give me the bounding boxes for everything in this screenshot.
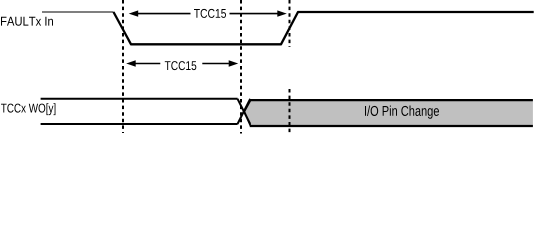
node: dashed timing reference line 3 lower (bus, x=289.5) [289, 89, 291, 133]
value label TCC15 (bottom) [165, 61, 197, 70]
dimension arrow TCC15 (bottom, fall to crossover) [126, 60, 238, 66]
region label I/O Pin Change [365, 106, 439, 119]
dimension arrow TCC15 (top, fall to rise) [129, 10, 287, 16]
wire: FAULTx In waveform fall-low-rise-high (thick) [114, 12, 534, 44]
wire: bus bottom rail [41, 123, 238, 125]
wire: shaded segment top border [250, 99, 533, 101]
wire: FAULTx In initial high segment (thin) [42, 11, 114, 13]
node: dashed timing reference line 1 (fall edge, x=123) [122, 0, 124, 133]
signal label TCCx WO[y] [1, 103, 55, 115]
node: dashed timing reference line 3 upper (rise edge, x=289.5) [289, 0, 291, 47]
wire: shaded segment left chevron edges [244, 100, 250, 126]
node: dashed timing reference line 2 (crossover, x=241) [240, 0, 242, 134]
wire: bus top rail [41, 98, 238, 100]
wire: shaded segment bottom border [250, 125, 533, 127]
region: I/O Pin Change shaded bus segment [244, 100, 533, 126]
signal label FAULTx In [1, 17, 53, 26]
node: bus crossover X [238, 99, 251, 124]
value label TCC15 (top) [194, 9, 226, 18]
